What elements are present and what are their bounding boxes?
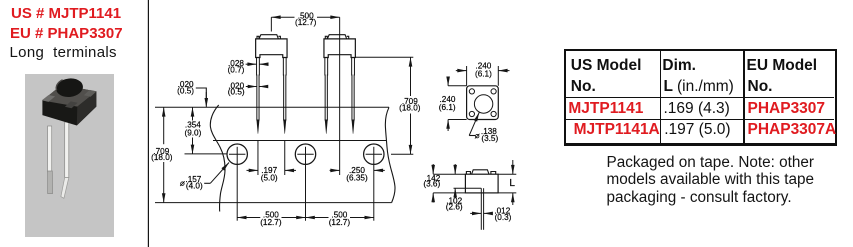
svg-text:(0.7): (0.7)	[228, 66, 245, 75]
svg-text:(12.7): (12.7)	[329, 218, 351, 227]
svg-text:(6.1): (6.1)	[475, 70, 492, 79]
svg-text:(9.0): (9.0)	[184, 128, 201, 137]
svg-text:(12.7): (12.7)	[295, 18, 317, 27]
svg-text:(18.0): (18.0)	[399, 104, 421, 113]
svg-text:(0.5): (0.5)	[177, 86, 194, 95]
svg-text:(6.1): (6.1)	[439, 103, 456, 112]
svg-text:(5.0): (5.0)	[261, 173, 278, 182]
svg-text:(4.0): (4.0)	[186, 182, 203, 191]
svg-text:(3.5): (3.5)	[481, 134, 498, 143]
svg-text:(2.6): (2.6)	[446, 202, 463, 211]
svg-text:(6.35): (6.35)	[346, 173, 368, 182]
svg-text:L: L	[509, 178, 515, 189]
svg-text:(12.7): (12.7)	[260, 218, 282, 227]
svg-text:(0.3): (0.3)	[495, 213, 512, 222]
svg-text:(3.6): (3.6)	[423, 180, 440, 189]
svg-text:(18.0): (18.0)	[151, 153, 173, 162]
svg-text:(0.5): (0.5)	[228, 88, 245, 97]
